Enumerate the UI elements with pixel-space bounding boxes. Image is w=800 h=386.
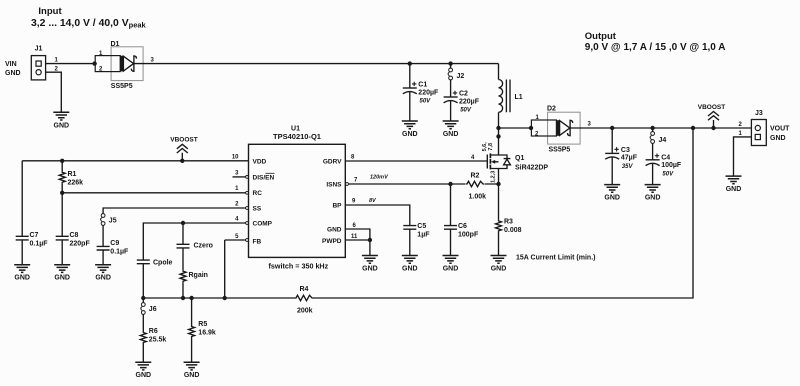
svg-text:ISNS: ISNS [326,182,342,189]
svg-text:DIS/EN: DIS/EN [253,174,275,181]
resistor R2 [466,173,487,201]
IC U1 TPS40210-Q1 [232,126,358,271]
svg-text:7,8: 7,8 [488,143,494,151]
svg-text:100pF: 100pF [458,232,479,239]
svg-text:120mV: 120mV [370,175,389,181]
junction feedback riser on output [691,126,695,130]
jumper J5 [101,214,117,226]
transistor Q1 SiR422DP [482,142,548,184]
svg-text:R1: R1 [68,171,77,178]
junction node FB Rgain [181,296,185,300]
junction VBOOST left [180,159,184,163]
svg-text:GND: GND [327,227,342,234]
ground J3 [726,176,742,193]
junction Q1 drain [496,134,500,138]
capacitor C7 [16,161,49,265]
junction Czero on COMP [181,221,185,225]
svg-text:VIN: VIN [5,61,17,68]
capacitor C9 [97,226,129,265]
resistor Rgain [180,248,208,298]
svg-text:50V: 50V [420,98,432,104]
svg-text:47µF: 47µF [621,155,638,162]
junction Q1 source node [496,182,500,186]
svg-text:35V: 35V [622,164,634,170]
capacitor Cpole [137,260,173,298]
wire D1 cathode to L1 top (pin 3) [134,63,498,65]
ground J1 [53,112,69,129]
wire VDD rail [22,160,248,162]
inductor L1 [499,64,523,128]
svg-text:GND: GND [770,135,786,142]
ground R6 [135,362,151,379]
svg-text:VOUT: VOUT [770,126,790,133]
svg-text:J4: J4 [659,137,667,144]
wire SS [103,208,248,214]
svg-text:J6: J6 [149,306,157,313]
capacitor C1 [403,64,439,121]
svg-text:R5: R5 [198,321,207,328]
wire J1 pin1 to D1 [46,63,96,65]
svg-text:C6: C6 [458,223,467,230]
connector J1 [5,46,59,80]
resistor R3 [496,184,522,256]
svg-text:220µF: 220µF [418,89,439,96]
ground C9 [95,265,111,282]
jumper J6 [141,298,157,314]
junction node C1 [408,61,412,65]
capacitor C8 [56,193,91,265]
resistor R5 [189,298,216,362]
svg-text:0.1µF: 0.1µF [30,241,49,248]
svg-text:1.00k: 1.00k [469,193,487,200]
diode D1 SS5P5 [95,41,143,90]
svg-text:0.008: 0.008 [504,227,522,234]
junction VBOOST output [711,126,715,130]
ground C6 [443,256,459,273]
resistor R6 [140,315,166,363]
jumper J2 [448,64,464,80]
svg-text:D1: D1 [111,41,120,48]
svg-text:1,2,3: 1,2,3 [491,171,497,183]
capacitor C5 [403,223,430,255]
svg-text:50V: 50V [662,172,674,178]
svg-text:SiR422DP: SiR422DP [515,164,548,171]
wire ISNS [349,183,499,185]
wire RC [62,192,248,194]
svg-text:200k: 200k [297,307,313,314]
svg-text:Input: Input [38,6,62,17]
wire FB node line [143,297,295,299]
connector J3 [739,110,791,146]
junction pin11 [368,238,372,242]
svg-text:J1: J1 [35,46,43,53]
svg-text:FB: FB [253,238,262,245]
svg-text:C9: C9 [110,240,119,247]
svg-text:0.1µF: 0.1µF [110,248,129,255]
junction node FB Cpole [141,296,145,300]
wire FB riser [225,240,249,298]
svg-text:SS: SS [253,205,262,212]
svg-text:Cpole: Cpole [153,260,173,267]
svg-text:R4: R4 [300,286,309,293]
wire GDRV to Q1 gate [345,160,487,162]
resistor R1 [59,161,83,193]
svg-text:C7: C7 [30,232,39,239]
svg-text:BP: BP [332,203,342,210]
jumper J4 [650,128,666,144]
svg-text:D2: D2 [547,106,556,113]
svg-text:J2: J2 [457,73,465,80]
wire R4 to output riser [313,128,693,298]
ground U1 [362,256,378,273]
svg-text:VBOOST: VBOOST [170,137,197,144]
svg-text:10: 10 [232,155,239,161]
svg-text:COMP: COMP [253,221,273,228]
svg-text:220µF: 220µF [459,98,480,105]
wire BP to C5 [345,205,410,226]
ground C2 [443,121,459,138]
pin 3 DIS/EN stub [233,176,246,178]
wire node to Q1 drain [498,128,500,155]
junction R1 top [60,159,64,163]
svg-text:9,0 V @ 1,7 A / 15 ,0 V @ 1,0: 9,0 V @ 1,7 A / 15 ,0 V @ 1,0 A [585,42,726,53]
svg-text:R6: R6 [149,328,158,335]
svg-text:J5: J5 [109,217,117,224]
capacitor C2 [444,80,480,121]
junction node C3 [610,126,614,130]
wire J3 pin1 to ground [734,137,752,176]
junction node D2 anode [529,126,533,130]
svg-text:R2: R2 [471,173,480,180]
ground C8 [54,265,70,282]
ground C4 [645,185,661,202]
svg-text:L1: L1 [515,94,523,101]
svg-text:C5: C5 [417,223,426,230]
svg-text:SS5P5: SS5P5 [111,83,133,90]
junction node FB R5 [189,296,193,300]
svg-text:11: 11 [351,234,358,240]
svg-text:GDRV: GDRV [323,159,342,166]
svg-text:C4: C4 [661,154,670,161]
svg-text:SS5P5: SS5P5 [549,147,571,154]
svg-text:Czero: Czero [194,243,213,250]
wire pins 6,11 to ground [345,229,370,256]
ground C5 [402,256,418,273]
junction node FB riser [223,296,227,300]
svg-text:1µF: 1µF [417,232,430,239]
svg-text:C2: C2 [459,91,468,98]
svg-text:25.5k: 25.5k [149,337,167,344]
svg-text:100µF: 100µF [661,162,682,169]
svg-text:Rgain: Rgain [189,272,208,279]
svg-text:PWPD: PWPD [322,238,342,245]
svg-text:16.9k: 16.9k [198,329,216,336]
wire J1 pin2 to ground [46,72,62,112]
svg-text:Q1: Q1 [515,155,524,162]
svg-text:C8: C8 [70,232,79,239]
wire COMP [143,223,248,260]
diode D2 SS5P5 [531,106,580,154]
svg-text:RC: RC [253,190,263,197]
wire D2 cathode to output (pin 3) [570,127,751,129]
capacitor C4 [646,144,682,185]
svg-text:C3: C3 [621,147,630,154]
svg-text:TPS40210-Q1: TPS40210-Q1 [273,132,321,141]
ground R5 [184,362,200,379]
svg-text:C1: C1 [418,82,427,89]
svg-text:220pF: 220pF [70,241,91,248]
junction C6 on ISNS [448,182,452,186]
svg-text:226k: 226k [68,179,84,186]
power symbol VBOOST output [698,104,725,128]
svg-text:15A Current Limit (min.): 15A Current Limit (min.) [516,255,595,262]
ground R3 [491,256,507,273]
svg-text:50V: 50V [460,107,472,113]
ground C3 [604,185,620,202]
svg-text:R3: R3 [504,219,513,226]
capacitor C6 [444,184,479,256]
junction R1 bottom node RC [60,191,64,195]
junction node J2 [448,61,452,65]
wire L1 node to D2 [499,127,532,129]
resistor R4 [295,286,313,314]
ground C7 [14,265,30,282]
node at D1 anode [92,61,96,65]
capacitor Czero [177,223,213,250]
svg-text:VBOOST: VBOOST [698,104,725,111]
node L1 / D2 [496,126,500,130]
svg-text:VDD: VDD [253,159,267,166]
ground C1 [402,121,418,138]
svg-text:GND: GND [5,70,21,77]
svg-text:fswitch = 350 kHz: fswitch = 350 kHz [269,261,329,270]
svg-text:3,2 ... 14,0 V / 40,0 Vpeak: 3,2 ... 14,0 V / 40,0 Vpeak [31,18,147,30]
junction node J4 [650,126,654,130]
svg-text:J3: J3 [755,110,763,117]
svg-text:Output: Output [585,31,617,42]
capacitor C3 [605,128,638,185]
power symbol VBOOST left [170,137,197,161]
